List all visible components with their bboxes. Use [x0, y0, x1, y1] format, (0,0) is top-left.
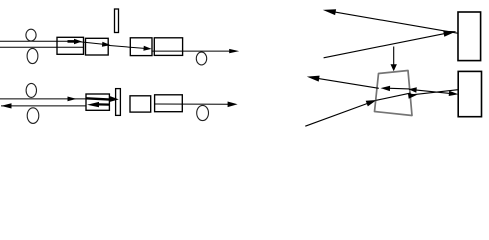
slit: thin vertical plate on bottom path	[116, 89, 121, 116]
arrow: input beam into G1	[324, 31, 457, 58]
arrow: thick backward arrow inside cell	[87, 102, 109, 107]
box: bottom row module 6	[155, 95, 183, 112]
grating G1: top right rectangle	[458, 12, 481, 61]
arrow: return beam inside prism pointing left	[381, 86, 410, 91]
arrow: beam direction inside module 1	[68, 39, 83, 45]
grating G2: bottom right rectangle	[458, 71, 481, 116]
box: top row module 2	[86, 38, 109, 55]
arrow: long beam entering prism from lower left	[305, 100, 376, 126]
lens: top row output ellipse	[196, 52, 206, 65]
arrow: diffracted beam from G1 to upper left	[323, 9, 458, 33]
lens: top-left telescope lower ellipse	[27, 48, 38, 63]
arrow: beam leaving prism to upper left	[307, 76, 379, 89]
wire: bottom beam upper line	[0, 98, 86, 100]
arrow: beam from prism into G2 (double headed pair)	[409, 87, 459, 96]
box: bottom row amplifier cell	[86, 94, 109, 110]
wire: return beam from G2 to prism	[410, 90, 458, 95]
arrow: beam through prism toward G2 with head at right edge	[376, 93, 417, 100]
arrowhead: bottom beam rightward marker	[68, 97, 77, 102]
arrow: top row output beam	[153, 49, 240, 53]
wire: top beam upper line	[0, 40, 79, 42]
box: top row module 3	[130, 38, 152, 56]
arrow: thick forward arrow through cell into plate	[86, 96, 119, 102]
box: bottom row module 5	[130, 96, 151, 112]
arrow: beam from module 1 into module 2	[80, 42, 111, 47]
lens: bottom-left telescope lower ellipse	[27, 108, 39, 124]
box: top row module 4	[154, 38, 182, 56]
prism: grey trapezoid	[375, 71, 413, 116]
wire: top beam lower line	[0, 46, 84, 48]
arrow: bottom row output beam	[155, 102, 238, 108]
box: top row module 1	[57, 37, 84, 54]
lens: top-left telescope upper ellipse	[26, 29, 36, 41]
arrow: beam from module 2 into module 3	[108, 45, 152, 50]
lens: bottom-left telescope upper ellipse	[26, 83, 36, 97]
arrow: bottom beam return line with left arrowhead	[1, 103, 86, 108]
lens: bottom row output ellipse	[197, 105, 209, 120]
slit: thin vertical plate above top row	[115, 9, 119, 33]
arrow: vertical marker down into prism	[391, 47, 397, 72]
